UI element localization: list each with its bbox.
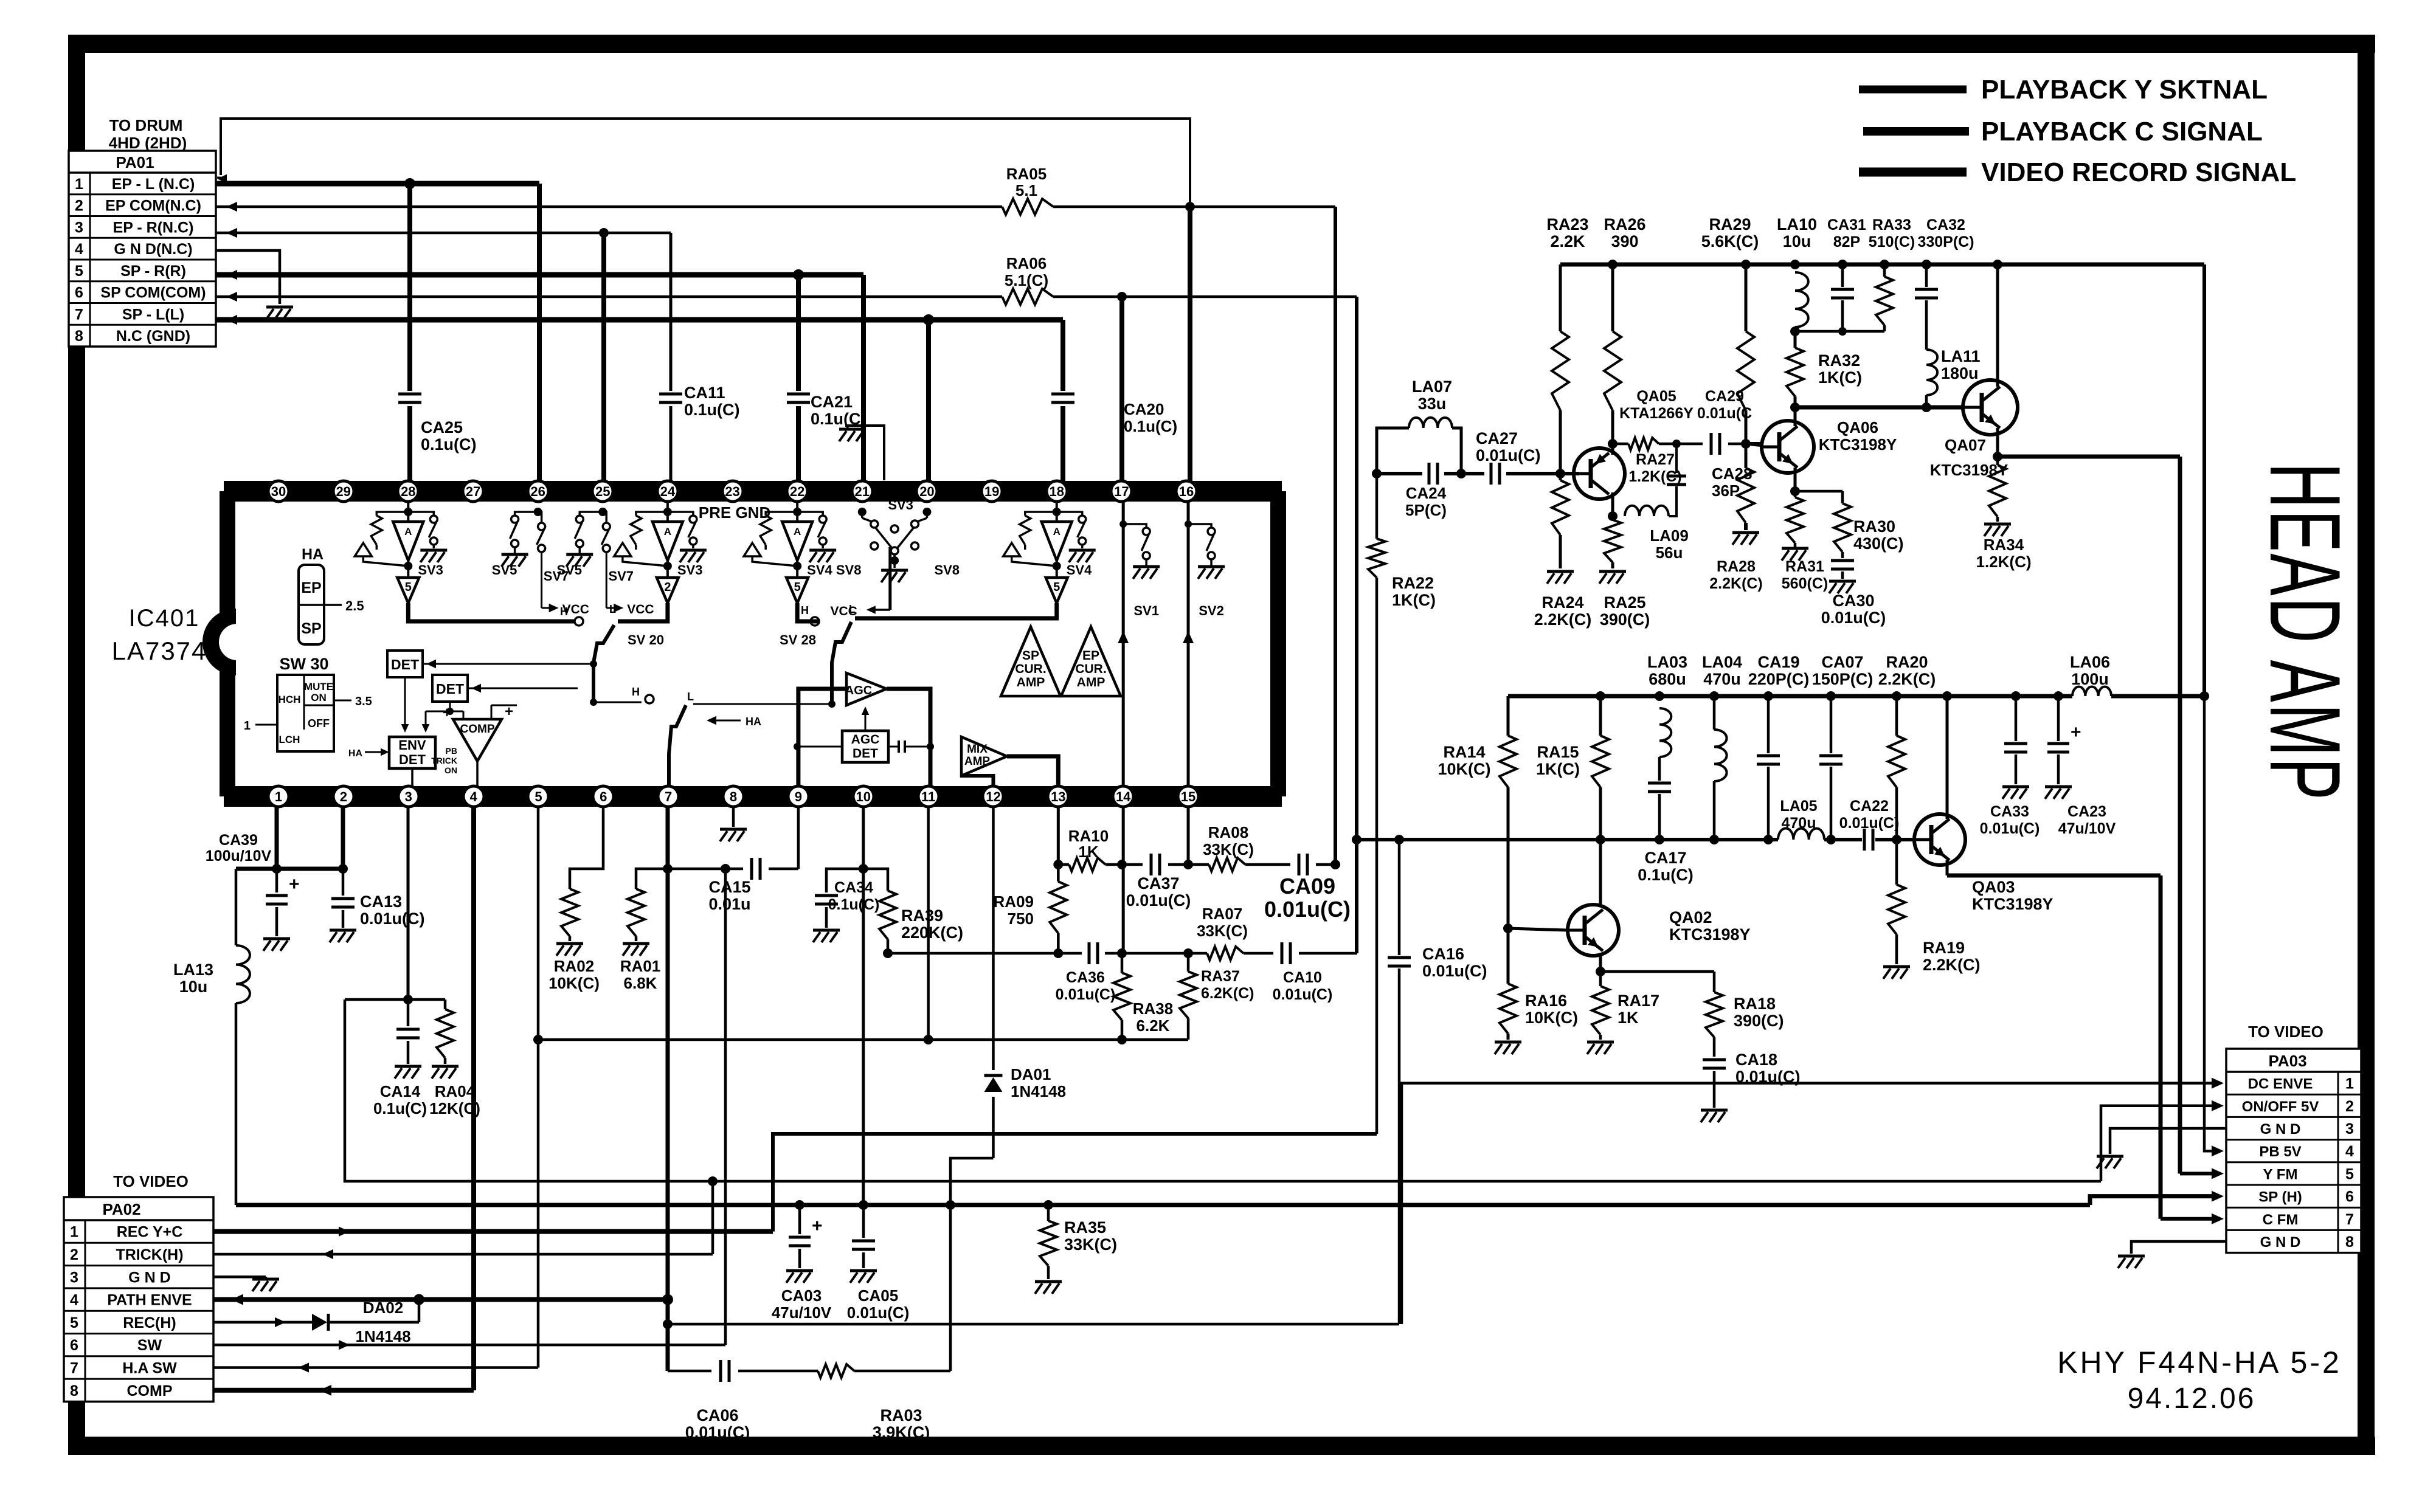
ground PA02-3 [252, 1279, 279, 1291]
svg-text:5: 5 [2345, 1165, 2354, 1182]
capacitor CA03 [772, 1205, 832, 1322]
svg-text:HA: HA [348, 748, 363, 759]
IC internal switch pair SV5 SV7 at pin26 [492, 508, 589, 616]
svg-text:RA19: RA19 [1923, 939, 1965, 957]
svg-text:QA06: QA06 [1837, 418, 1878, 437]
svg-text:RA26: RA26 [1604, 215, 1645, 233]
svg-text:PA02: PA02 [102, 1200, 140, 1218]
svg-text:94.12.06: 94.12.06 [2128, 1383, 2256, 1415]
wire QA03 base line [1357, 835, 1914, 844]
capacitor CA28 [1667, 464, 1752, 500]
wire CA23 column [2047, 691, 2081, 784]
svg-text:RA38: RA38 [1133, 999, 1173, 1018]
IC U401 body [202, 491, 1282, 796]
svg-text:5.1(C): 5.1(C) [1005, 271, 1048, 289]
title KHY F44N-HA 5-2 [2057, 1345, 2342, 1379]
IC internal amp cell SV3 at pin28 [355, 502, 447, 603]
svg-text:RA25: RA25 [1604, 593, 1645, 612]
wire LA10 node line [1795, 327, 1884, 336]
svg-text:SV3: SV3 [888, 497, 913, 513]
ground RA16 [1495, 1042, 1521, 1054]
svg-text:N.C (GND): N.C (GND) [116, 328, 190, 345]
svg-text:HA: HA [302, 546, 324, 563]
svg-text:RA15: RA15 [1537, 743, 1579, 761]
svg-text:RA18: RA18 [1734, 995, 1776, 1013]
svg-text:2.2K(C): 2.2K(C) [1878, 670, 1936, 688]
svg-text:CA06: CA06 [696, 1406, 738, 1424]
svg-text:RA07: RA07 [1202, 905, 1242, 923]
IC internal SP CUR AMP + SV1 [1001, 502, 1160, 786]
svg-text:G N D: G N D [128, 1269, 170, 1286]
svg-text:DA01: DA01 [1011, 1065, 1051, 1083]
wire PA03-3 GND [2110, 1128, 2226, 1154]
IC internal DET box 1 [387, 651, 597, 677]
svg-text:AGC: AGC [845, 684, 872, 697]
inductor LA09 [1625, 444, 1689, 562]
capacitor CA32 [1915, 216, 1974, 350]
resistor RA24 [1534, 480, 1592, 629]
ground RA17 [1587, 1042, 1614, 1054]
wire QA07 emitter [1993, 428, 2180, 1170]
svg-text:18: 18 [1049, 484, 1064, 499]
svg-text:3: 3 [75, 219, 83, 236]
svg-text:ENV: ENV [398, 737, 426, 753]
capacitor CA24 [1405, 463, 1447, 519]
svg-text:5P(C): 5P(C) [1405, 501, 1447, 519]
svg-text:2.5: 2.5 [345, 598, 364, 613]
svg-text:2: 2 [70, 1246, 78, 1263]
ground CA13 [330, 930, 356, 942]
svg-text:5.6K(C): 5.6K(C) [1701, 232, 1759, 250]
svg-text:3.5: 3.5 [355, 695, 372, 708]
svg-text:CA09: CA09 [1279, 874, 1335, 899]
svg-text:SP - R(R): SP - R(R) [120, 263, 186, 280]
svg-text:28: 28 [401, 484, 415, 499]
capacitor CA16 [1388, 945, 1487, 980]
svg-text:CA11: CA11 [684, 384, 725, 402]
svg-text:5: 5 [405, 581, 412, 594]
wire PA02-7 H.A SW [213, 1362, 538, 1372]
svg-text:RA27: RA27 [1636, 451, 1675, 468]
inductor LA13 [173, 869, 250, 1205]
svg-text:CA34: CA34 [834, 879, 873, 896]
svg-text:1: 1 [70, 1224, 78, 1241]
svg-text:33u: 33u [1418, 395, 1447, 413]
svg-text:0.01u(C): 0.01u(C) [1126, 891, 1191, 910]
svg-text:CA32: CA32 [1926, 216, 1965, 233]
IC internal wire SW28 route [780, 603, 1057, 704]
wire PA02-8 COMP [213, 1385, 474, 1396]
svg-text:1: 1 [2345, 1075, 2354, 1093]
wire 1982 line [236, 1200, 2090, 1210]
svg-text:CUR.: CUR. [1075, 662, 1106, 676]
wire PB5V into PA03-4 [2204, 696, 2224, 1156]
svg-text:LA07: LA07 [1412, 378, 1452, 396]
svg-text:56u: 56u [1656, 544, 1683, 562]
svg-text:CA18: CA18 [1735, 1051, 1777, 1069]
wire pin4 column [471, 807, 476, 1390]
svg-text:A: A [404, 526, 412, 537]
svg-text:2: 2 [340, 789, 347, 804]
svg-text:SW: SW [137, 1337, 162, 1354]
legend line video record [1859, 157, 2296, 187]
svg-text:CA33: CA33 [1990, 803, 2029, 820]
wire QA03 collector [1942, 691, 1952, 819]
svg-text:CA36: CA36 [1066, 969, 1105, 986]
transistor QA07 [1930, 380, 2018, 479]
wire PA02-5 REC(H) [213, 1300, 419, 1327]
wire QA06 base line [1746, 442, 1762, 446]
IC internal COMP comparator [431, 703, 517, 786]
wire PA02-2 TRICK(H) [213, 1249, 713, 1259]
svg-text:0.01u(C): 0.01u(C) [685, 1423, 750, 1441]
svg-text:0.01u(C): 0.01u(C) [1264, 897, 1351, 922]
capacitor CA39 [206, 832, 300, 936]
svg-text:0.1u(C): 0.1u(C) [828, 896, 880, 913]
capacitor CA11 [659, 384, 740, 419]
svg-text:CA10: CA10 [1283, 969, 1322, 986]
wire pin10 column [859, 807, 868, 1210]
transistor QA05 [1574, 388, 1694, 516]
svg-text:RA14: RA14 [1443, 743, 1485, 761]
node rail2 (FM line) [1508, 694, 2204, 699]
ground CA18 [1701, 1110, 1728, 1122]
wire LA03 column [1655, 691, 1664, 844]
svg-text:CA27: CA27 [1476, 429, 1518, 447]
capacitor CA17 [1638, 783, 1694, 884]
svg-text:0.01u(C): 0.01u(C) [1980, 820, 2040, 837]
svg-text:L: L [609, 603, 616, 615]
node rail1 (PB 5V rail) [1560, 263, 2204, 267]
svg-text:RA23: RA23 [1546, 215, 1588, 233]
svg-text:330P(C): 330P(C) [1917, 233, 1974, 250]
wire CA34 branch [826, 869, 863, 892]
wire CA16 to pin7 line [663, 1319, 1399, 1329]
svg-text:390(C): 390(C) [1600, 610, 1650, 629]
svg-text:0.01u(C): 0.01u(C) [1422, 962, 1487, 980]
capacitor CA13 [331, 869, 425, 928]
svg-text:2: 2 [664, 581, 671, 594]
svg-text:5: 5 [794, 581, 801, 594]
svg-text:12: 12 [986, 789, 1000, 804]
wire RA08 line [1188, 860, 1340, 869]
svg-text:CA23: CA23 [2067, 803, 2106, 820]
svg-text:DET: DET [399, 752, 426, 767]
svg-text:H: H [560, 606, 568, 618]
svg-text:HCH: HCH [279, 694, 301, 705]
svg-text:4: 4 [70, 1292, 78, 1309]
IC internal MIX amp [961, 737, 1058, 786]
svg-text:KTC3198Y: KTC3198Y [1972, 895, 2054, 913]
ground RA19 [1883, 967, 1910, 979]
connector PA03 [2226, 1023, 2361, 1253]
svg-text:29: 29 [336, 484, 350, 499]
resistor RA23 [1546, 215, 1588, 410]
svg-text:6: 6 [2345, 1189, 2354, 1206]
wire CA33 column [2004, 691, 2027, 784]
svg-text:SV8: SV8 [934, 562, 960, 578]
svg-text:0.01u(C): 0.01u(C) [1273, 986, 1333, 1003]
svg-text:0.1u(C): 0.1u(C) [684, 401, 740, 419]
svg-text:6: 6 [70, 1337, 78, 1354]
svg-text:33K(C): 33K(C) [1203, 840, 1254, 858]
svg-text:RA28: RA28 [1717, 558, 1756, 575]
IC internal DET box 2 [432, 675, 578, 702]
svg-text:220P(C): 220P(C) [1748, 670, 1810, 688]
capacitor CA22 [1839, 798, 1900, 851]
legend line playback C [1863, 117, 2263, 147]
svg-text:SV2: SV2 [1199, 603, 1224, 618]
capacitor CA14 [373, 999, 427, 1117]
svg-text:SP - L(L): SP - L(L) [122, 306, 184, 323]
diode DA02 [312, 1299, 411, 1345]
svg-text:RA32: RA32 [1818, 351, 1860, 370]
wire PA03-8 GND [2131, 1241, 2226, 1254]
resistor RA31 [1782, 497, 1828, 592]
legend line playback Y [1859, 75, 2268, 105]
svg-text:0.01u(C): 0.01u(C) [1476, 446, 1541, 464]
transistor QA02 [1568, 905, 1751, 956]
ground PA01-4 [266, 307, 293, 319]
wire QA06 collector [1794, 407, 1797, 426]
wire QA02 emitter node [1596, 956, 1605, 1040]
svg-text:1.2K(C): 1.2K(C) [1628, 468, 1682, 485]
svg-text:390(C): 390(C) [1734, 1012, 1784, 1030]
svg-text:RA17: RA17 [1618, 992, 1659, 1010]
svg-text:0.1u(C): 0.1u(C) [1638, 866, 1694, 884]
wire Y FM into PA03-5 [2180, 1168, 2224, 1179]
svg-text:H: H [632, 686, 640, 698]
svg-text:TO DRUM: TO DRUM [109, 116, 183, 134]
svg-text:KTA1266Y: KTA1266Y [1619, 405, 1694, 422]
svg-text:750: 750 [1008, 910, 1034, 928]
svg-text:4: 4 [75, 241, 83, 258]
wire pin15 column [1187, 807, 1190, 865]
svg-text:5.1: 5.1 [1016, 181, 1037, 199]
svg-text:RA03: RA03 [880, 1406, 922, 1424]
svg-text:MIX: MIX [967, 743, 988, 756]
wire pin12 column DA01 [946, 807, 993, 1210]
svg-text:RA37: RA37 [1201, 968, 1240, 985]
ground pre-gnd [839, 429, 866, 441]
svg-text:8: 8 [730, 789, 737, 804]
svg-text:22: 22 [790, 484, 804, 499]
svg-text:0.01u(C): 0.01u(C) [360, 910, 425, 928]
wire RA10 line [1058, 860, 1193, 869]
capacitor CA23 label [2058, 803, 2116, 837]
resistor RA26 [1604, 215, 1645, 410]
wire CA07 column [1819, 691, 1842, 844]
resistor RA29 [1701, 215, 1759, 410]
svg-text:CA39: CA39 [219, 832, 258, 849]
svg-text:150P(C): 150P(C) [1812, 670, 1874, 688]
ground CA33 [2002, 787, 2029, 799]
svg-text:33K(C): 33K(C) [1064, 1235, 1117, 1254]
resistor RA05 [1002, 165, 1053, 215]
svg-text:1K(C): 1K(C) [1536, 760, 1580, 778]
resistor RA20 [1878, 653, 1936, 787]
svg-text:11: 11 [921, 789, 935, 804]
svg-text:RA20: RA20 [1886, 653, 1928, 671]
resistor RA17 [1592, 986, 1659, 1035]
wire pin25 column [601, 233, 606, 481]
svg-text:10u: 10u [1783, 232, 1811, 250]
capacitor CA27 [1476, 429, 1541, 485]
wire pin28 column [407, 184, 412, 481]
svg-text:A: A [794, 526, 801, 537]
ground CA39 [263, 939, 290, 951]
svg-text:10K(C): 10K(C) [1438, 760, 1490, 778]
ground RA02 [556, 944, 583, 956]
svg-text:430(C): 430(C) [1853, 534, 1904, 553]
svg-text:6: 6 [600, 789, 607, 804]
svg-text:CA24: CA24 [1406, 484, 1447, 502]
svg-text:1: 1 [244, 719, 251, 733]
wire PA01-3 EP-R [216, 228, 671, 238]
svg-text:RA01: RA01 [620, 957, 660, 975]
wire RA23 column [1555, 264, 1565, 568]
svg-text:5: 5 [535, 789, 542, 804]
wire PA01-7 SP-L bus [216, 314, 1063, 325]
ground RA35 [1035, 1282, 1062, 1294]
svg-text:SV1: SV1 [1133, 603, 1159, 618]
resistor RA09 [994, 865, 1067, 953]
svg-text:+: + [289, 874, 300, 894]
wire pins1-2 row [236, 864, 348, 874]
svg-text:LA04: LA04 [1702, 653, 1742, 671]
ground CA03 [786, 1271, 813, 1283]
ground RA24 [1547, 571, 1574, 584]
svg-text:REC Y+C: REC Y+C [117, 1224, 183, 1241]
svg-text:0.01u(C): 0.01u(C) [1839, 815, 1900, 832]
wire rail1 right corner [2199, 264, 2209, 701]
wire pin3 column [403, 807, 413, 1004]
IC U401 top pins 30-16 [268, 481, 1197, 502]
connector PA02 [64, 1172, 213, 1401]
svg-text:100u/10V: 100u/10V [206, 847, 272, 865]
svg-text:2.2K: 2.2K [1550, 232, 1585, 250]
IC internal label PRE GND [699, 503, 770, 522]
resistor RA01 [620, 889, 660, 992]
svg-text:7: 7 [665, 789, 672, 804]
svg-text:CUR.: CUR. [1015, 662, 1046, 676]
wire pin18 column [1060, 320, 1065, 481]
resistor RA38 [1113, 953, 1173, 1040]
svg-text:ON: ON [311, 692, 327, 703]
svg-text:ON: ON [445, 765, 457, 775]
wire CA19 column [1757, 691, 1780, 844]
svg-text:27: 27 [466, 484, 480, 499]
wire PA02-4 PATH ENVE [213, 1294, 668, 1305]
wire LA10 column [1790, 260, 1800, 412]
svg-text:RA34: RA34 [1984, 536, 2024, 554]
svg-text:DET: DET [436, 681, 464, 697]
svg-text:1N4148: 1N4148 [1011, 1082, 1066, 1100]
capacitor CA31 [1827, 216, 1866, 331]
ground PA03-3 [2097, 1156, 2123, 1169]
svg-text:0.1u(C): 0.1u(C) [373, 1099, 427, 1117]
capacitor CA21 [787, 393, 867, 428]
resistor RA03 [818, 1364, 930, 1441]
svg-text:A: A [1053, 526, 1060, 537]
ground CA05 [850, 1271, 877, 1283]
svg-text:SV3: SV3 [418, 562, 443, 578]
svg-text:PATH ENVE: PATH ENVE [107, 1292, 192, 1309]
resistor RA35 [1040, 1200, 1117, 1279]
svg-text:23: 23 [725, 484, 739, 499]
svg-text:1K(C): 1K(C) [1818, 368, 1862, 387]
svg-text:26: 26 [530, 484, 545, 499]
capacitor CA20 [1051, 394, 1177, 435]
IC internal switch network SV3/SV8 pins 21-20 [830, 497, 960, 618]
svg-text:LA7374: LA7374 [112, 637, 207, 665]
svg-text:SV5: SV5 [492, 562, 517, 578]
capacitor CA09 [1264, 854, 1351, 922]
svg-text:OFF: OFF [308, 717, 330, 730]
svg-text:560(C): 560(C) [1782, 575, 1828, 592]
svg-text:8: 8 [70, 1383, 78, 1400]
svg-text:0.01u: 0.01u [708, 895, 750, 913]
wire pin13 column [1053, 807, 1063, 869]
ground CA23 [2045, 787, 2072, 799]
svg-text:CA25: CA25 [421, 418, 463, 437]
svg-text:LA11: LA11 [1941, 347, 1981, 365]
IC internal amp cell SV3 at pin24 [614, 502, 707, 603]
wire pin11 column [927, 807, 930, 1040]
svg-text:DA02: DA02 [363, 1299, 403, 1317]
svg-text:14: 14 [1116, 789, 1131, 804]
capacitor CA34 [815, 879, 879, 928]
svg-text:CA05: CA05 [858, 1286, 898, 1305]
svg-text:2.2K(C): 2.2K(C) [1923, 956, 1981, 974]
svg-text:TRICK(H): TRICK(H) [116, 1246, 183, 1263]
svg-text:82P: 82P [1833, 233, 1860, 250]
svg-text:4HD (2HD): 4HD (2HD) [109, 134, 187, 152]
svg-text:1K: 1K [1078, 843, 1098, 861]
wire pin8 ground stub [732, 807, 735, 827]
wire CA09 column [1334, 207, 1337, 865]
capacitor CA15 [708, 858, 760, 913]
svg-text:AGC: AGC [851, 733, 880, 747]
svg-text:2.2K(C): 2.2K(C) [1534, 610, 1592, 629]
svg-text:ON/OFF 5V: ON/OFF 5V [2242, 1099, 2319, 1115]
svg-text:TO VIDEO: TO VIDEO [2248, 1023, 2323, 1041]
svg-text:PB 5V: PB 5V [2259, 1144, 2301, 1160]
svg-text:0.1u(C): 0.1u(C) [1124, 417, 1177, 435]
svg-text:3: 3 [405, 789, 412, 804]
resistor RA30 [1834, 503, 1904, 553]
wire pin5 column [537, 807, 540, 1367]
svg-text:RA35: RA35 [1064, 1218, 1106, 1237]
ground RA31 [1782, 548, 1808, 561]
svg-text:QA03: QA03 [1972, 878, 2015, 896]
wire 1710 line [533, 1035, 1188, 1044]
svg-text:220K(C): 220K(C) [901, 923, 963, 942]
wire PA01-2 EP COM [216, 202, 1335, 212]
connector PA01 [69, 116, 216, 347]
svg-text:680u: 680u [1649, 670, 1686, 688]
svg-text:100u: 100u [2071, 670, 2109, 688]
wire PA01-6 SP COM [216, 292, 1357, 302]
resistor RA19 [1888, 885, 1981, 974]
resistor RA39 [879, 891, 963, 958]
svg-text:47u/10V: 47u/10V [2058, 820, 2116, 837]
wire pin16 column [1188, 207, 1192, 481]
wire CA16 column [1398, 840, 1401, 1324]
svg-text:5: 5 [1053, 581, 1060, 594]
svg-text:7: 7 [75, 306, 83, 323]
IC internal wire SW20 route [408, 603, 668, 702]
